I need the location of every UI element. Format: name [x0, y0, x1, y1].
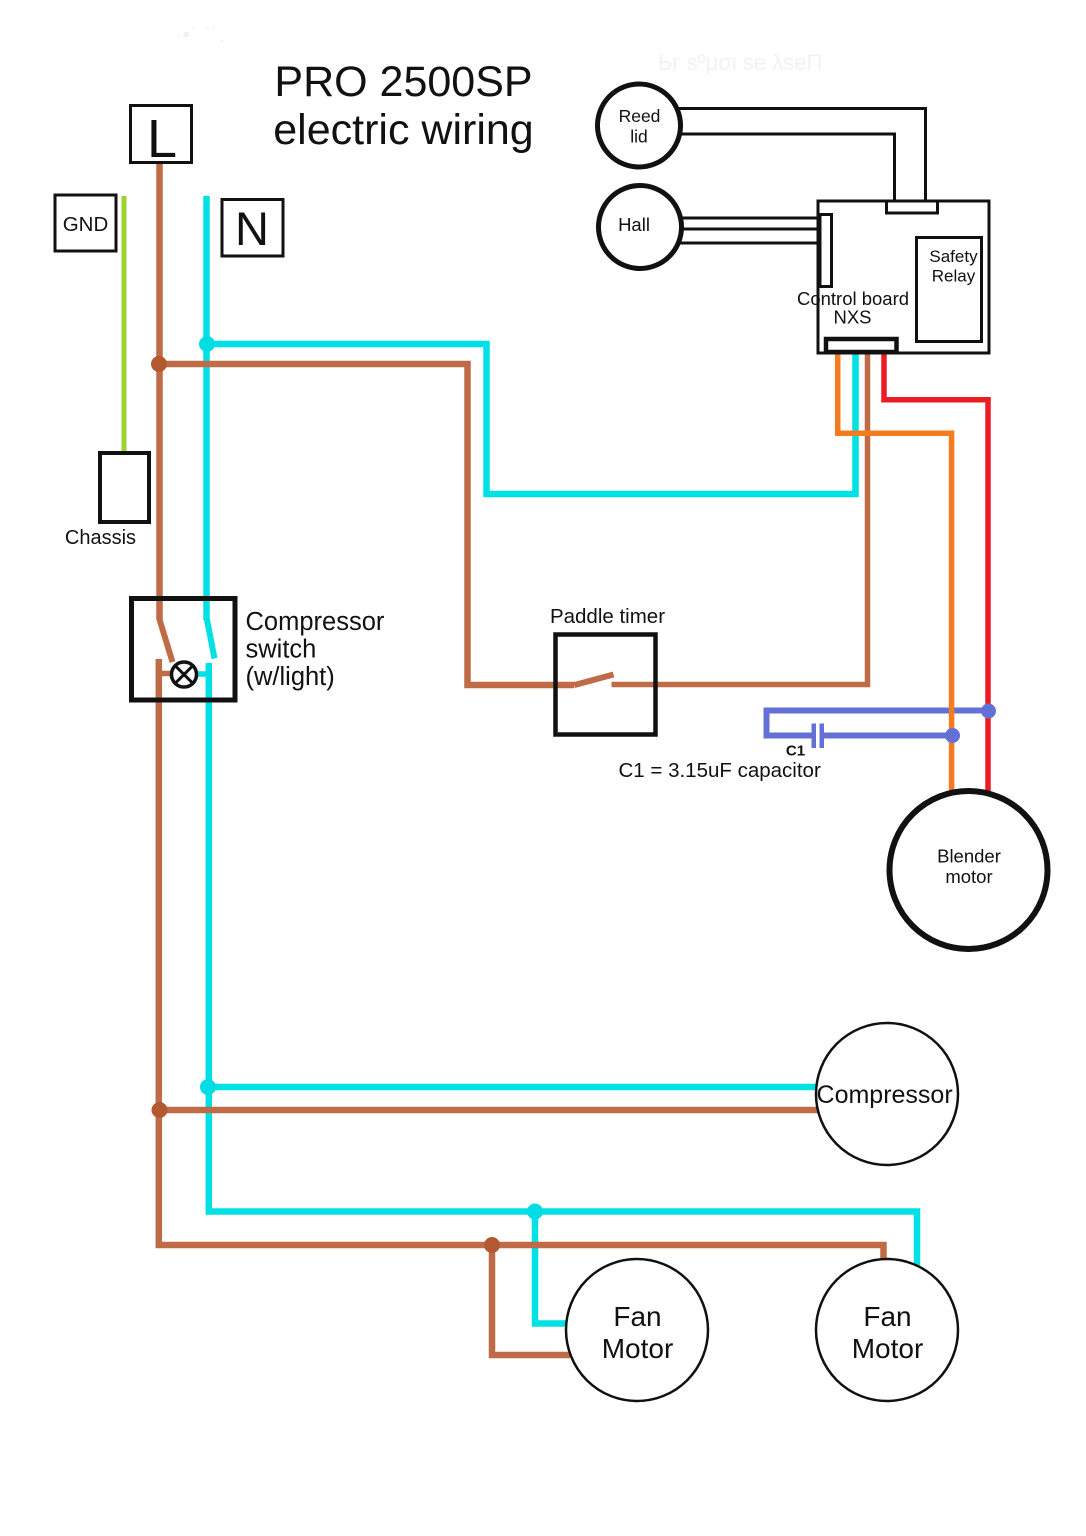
svg-text:Compressor: Compressor [817, 1081, 953, 1109]
svg-text:Ьг ѕºμσι ѕе λѕеП: Ьг ѕºμσι ѕе λѕеП [658, 50, 822, 75]
svg-text:C1 = 3.15uF capacitor: C1 = 3.15uF capacitor [619, 759, 821, 782]
svg-text:Chassis: Chassis [65, 527, 136, 549]
svg-text:Compressor: Compressor [246, 608, 385, 636]
svg-text:N: N [235, 202, 269, 255]
svg-text:Fan: Fan [863, 1301, 911, 1332]
svg-text:lid: lid [630, 127, 648, 147]
svg-text:Relay: Relay [932, 267, 976, 286]
svg-text:Blender: Blender [937, 846, 1001, 867]
svg-text:electric wiring: electric wiring [273, 106, 533, 154]
svg-text:NXS: NXS [833, 307, 871, 328]
svg-text:Motor: Motor [602, 1333, 674, 1364]
svg-text:(w/light): (w/light) [246, 663, 335, 691]
svg-text:C1: C1 [786, 743, 805, 760]
svg-text:L: L [147, 109, 177, 169]
svg-text:Motor: Motor [852, 1333, 924, 1364]
svg-text:Paddle timer: Paddle timer [550, 605, 665, 628]
svg-text:switch: switch [246, 636, 317, 664]
svg-text:Fan: Fan [613, 1301, 661, 1332]
svg-text:Hall: Hall [618, 214, 650, 235]
svg-text:GND: GND [63, 213, 109, 236]
svg-text:PRO 2500SP: PRO 2500SP [274, 58, 532, 106]
svg-text:motor: motor [945, 866, 992, 887]
svg-text:Safety: Safety [929, 247, 978, 266]
svg-text:·•´ `´․: ·•´ `´․ [175, 22, 225, 47]
svg-text:Reed: Reed [619, 106, 661, 126]
